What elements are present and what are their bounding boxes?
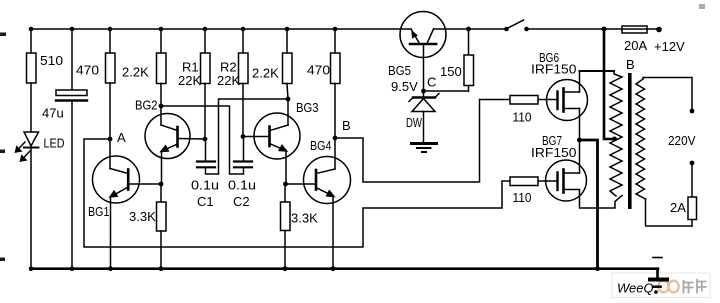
transformer core — [628, 73, 632, 209]
wire coupling C1 bottom to BG3 base node — [206, 99, 289, 174]
transistor BG3 — [254, 99, 300, 184]
svg-text:C: C — [427, 75, 436, 90]
node 220V terminal top — [690, 109, 695, 114]
wire junction to ground rail — [580, 140, 598, 269]
capacitor C1 0.1u — [197, 139, 215, 167]
svg-text:2.2K: 2.2K — [122, 65, 149, 80]
transistor BG1 — [93, 139, 162, 269]
svg-text:A: A — [117, 130, 126, 145]
wire secondary top to 220V terminal — [643, 78, 692, 111]
wire BG6 drain to primary top — [580, 70, 615, 72]
resistor 3.3K (left) — [157, 184, 167, 269]
resistor 470 (right) — [331, 29, 341, 138]
resistor R2 22K — [239, 29, 249, 137]
transistor BG2 — [145, 106, 205, 184]
fuse 20A — [622, 26, 647, 33]
svg-text:470: 470 — [307, 63, 330, 78]
svg-text:WeeQ: WeeQ — [617, 281, 654, 296]
svg-text:510: 510 — [40, 53, 63, 68]
wire node B to BG6 gate — [335, 100, 510, 183]
fuse 2A — [688, 163, 697, 226]
svg-text:22K: 22K — [217, 73, 240, 88]
resistor R1 22K — [201, 29, 211, 139]
transistor BG5 — [400, 12, 446, 92]
scan artifact top right — [699, 4, 705, 9]
wire bottom ground rail — [31, 267, 658, 270]
scan artifact left edge marks — [0, 33, 6, 262]
svg-text:47u: 47u — [42, 106, 64, 121]
mosfet BG6 IRF150 — [547, 71, 588, 140]
resistor 470 (left) — [106, 29, 116, 139]
ground (zener) — [412, 144, 437, 153]
svg-text:3.3K: 3.3K — [129, 209, 156, 224]
wire rail after switch to fuse — [527, 28, 623, 30]
svg-text:BG3: BG3 — [296, 100, 319, 115]
svg-text:DW: DW — [406, 115, 423, 130]
node C1 top / R1 / BG2 collector — [203, 137, 208, 142]
svg-text:150: 150 — [440, 64, 462, 79]
LED — [16, 132, 39, 269]
transformer B primary winding — [610, 71, 622, 196]
svg-text:IRF150: IRF150 — [531, 145, 577, 160]
svg-text:110: 110 — [513, 190, 532, 205]
node BG2 base (2.2K / C2 coupling) — [159, 104, 164, 109]
svg-text:BG5: BG5 — [388, 63, 411, 78]
svg-text:220V: 220V — [668, 133, 696, 148]
svg-text:BG4: BG4 — [310, 138, 332, 153]
svg-text:20A: 20A — [624, 38, 647, 53]
wire fuse to +12V terminal — [647, 28, 659, 30]
node A — [108, 137, 113, 142]
capacitor C2 0.1u — [234, 137, 252, 168]
bottom rail junction dots — [29, 266, 600, 271]
svg-text:22K: 22K — [178, 73, 201, 88]
node center tap — [612, 137, 617, 142]
resistor 2.2K (right) — [283, 29, 293, 99]
switch — [504, 20, 529, 31]
wire secondary bottom to 2A fuse — [646, 199, 693, 226]
top rail junction dots — [29, 27, 338, 32]
transformer B secondary winding — [636, 79, 646, 199]
svg-text:2A: 2A — [670, 200, 686, 215]
svg-text:BG1: BG1 — [88, 204, 110, 219]
node BG1 base / BG2 emitter / 3.3K — [159, 182, 164, 187]
node 220V terminal bottom — [690, 161, 695, 166]
capacitor 47u — [56, 29, 87, 269]
svg-text:IRF150: IRF150 — [531, 62, 577, 77]
node BG3 collector / C1 bottom — [286, 97, 291, 102]
svg-text:470: 470 — [76, 63, 99, 78]
svg-text:3.3K: 3.3K — [291, 211, 318, 226]
svg-text:0.1u: 0.1u — [228, 178, 256, 193]
wire BG7 source to primary bottom — [580, 190, 623, 209]
wire +12V to transformer center tap — [604, 29, 613, 139]
node BG4 base / BG3 emitter / 3.3K — [283, 182, 288, 187]
resistor 2.2K (left) — [157, 29, 167, 106]
svg-text:B: B — [342, 118, 351, 133]
wire top rail left segment — [31, 28, 411, 30]
svg-text:0.1u: 0.1u — [191, 178, 219, 193]
svg-text:2.2K: 2.2K — [252, 66, 279, 81]
battery negative terminal — [650, 258, 667, 294]
wire node A feedback to BG7 gate — [84, 139, 510, 247]
node center-tap rail junction — [602, 27, 607, 32]
resistor 110 (BG6 gate) — [510, 96, 547, 105]
wire BG3 base lead — [243, 136, 270, 138]
watermark WeeQoo box — [612, 273, 710, 298]
svg-text:9.5V: 9.5V — [391, 79, 418, 94]
wire top rail right segment (BG5 collector to switch) — [434, 28, 507, 30]
node BG6 source / BG7 drain — [577, 138, 582, 143]
svg-text:110: 110 — [513, 110, 532, 125]
resistor 510 — [27, 29, 37, 131]
transistor BG4 — [286, 138, 351, 269]
svg-text:BG2: BG2 — [135, 98, 158, 113]
resistor 110 (BG7 gate) — [510, 177, 547, 186]
mosfet BG7 IRF150 — [546, 140, 587, 201]
node C2 top / R2 / BG3 base — [241, 134, 246, 139]
wire coupling C2 top to BG2 base — [161, 106, 244, 174]
node +12V terminal — [656, 27, 662, 33]
svg-text:C1: C1 — [197, 194, 214, 209]
svg-text:+12V: +12V — [654, 39, 685, 54]
zener diode DW — [409, 91, 439, 143]
resistor 3.3K (right) — [281, 184, 291, 269]
svg-text:C2: C2 — [233, 194, 250, 209]
node C — [421, 89, 426, 94]
node 150 top on rail — [466, 27, 471, 32]
svg-text:LED: LED — [44, 136, 65, 151]
node B — [333, 136, 338, 141]
svg-text:B: B — [626, 57, 635, 72]
resistor 150 — [424, 29, 474, 91]
